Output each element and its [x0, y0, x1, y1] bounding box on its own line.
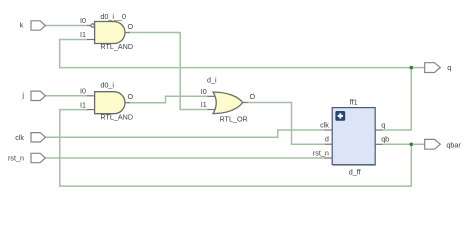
svg-text:d_i: d_i — [207, 76, 217, 85]
svg-text:RTL_AND: RTL_AND — [100, 42, 133, 51]
svg-text:I0: I0 — [201, 87, 207, 96]
svg-text:rst_n: rst_n — [8, 154, 24, 163]
svg-text:clk: clk — [15, 133, 24, 142]
svg-text:d0_i__0: d0_i__0 — [100, 12, 126, 21]
svg-text:RTL_OR: RTL_OR — [220, 114, 248, 123]
svg-text:O: O — [250, 92, 256, 101]
svg-text:d0_i: d0_i — [100, 80, 114, 89]
svg-text:O: O — [128, 22, 134, 31]
svg-text:I1: I1 — [80, 100, 86, 109]
svg-text:rst_n: rst_n — [313, 148, 329, 157]
svg-text:I1: I1 — [80, 30, 86, 39]
svg-text:ff1: ff1 — [350, 97, 358, 106]
svg-text:RTL_AND: RTL_AND — [100, 112, 133, 121]
svg-text:O: O — [128, 92, 134, 101]
svg-text:j: j — [21, 91, 24, 100]
svg-text:qbar: qbar — [446, 141, 461, 150]
svg-text:d_ff: d_ff — [349, 167, 361, 176]
svg-text:k: k — [20, 20, 24, 29]
svg-text:q: q — [447, 63, 451, 72]
svg-text:qb: qb — [381, 135, 389, 144]
svg-text:q: q — [381, 121, 385, 130]
svg-text:d: d — [325, 135, 329, 144]
svg-text:I0: I0 — [80, 16, 86, 25]
svg-text:I0: I0 — [80, 87, 86, 96]
svg-text:I1: I1 — [201, 100, 207, 109]
svg-text:clk: clk — [320, 121, 329, 130]
